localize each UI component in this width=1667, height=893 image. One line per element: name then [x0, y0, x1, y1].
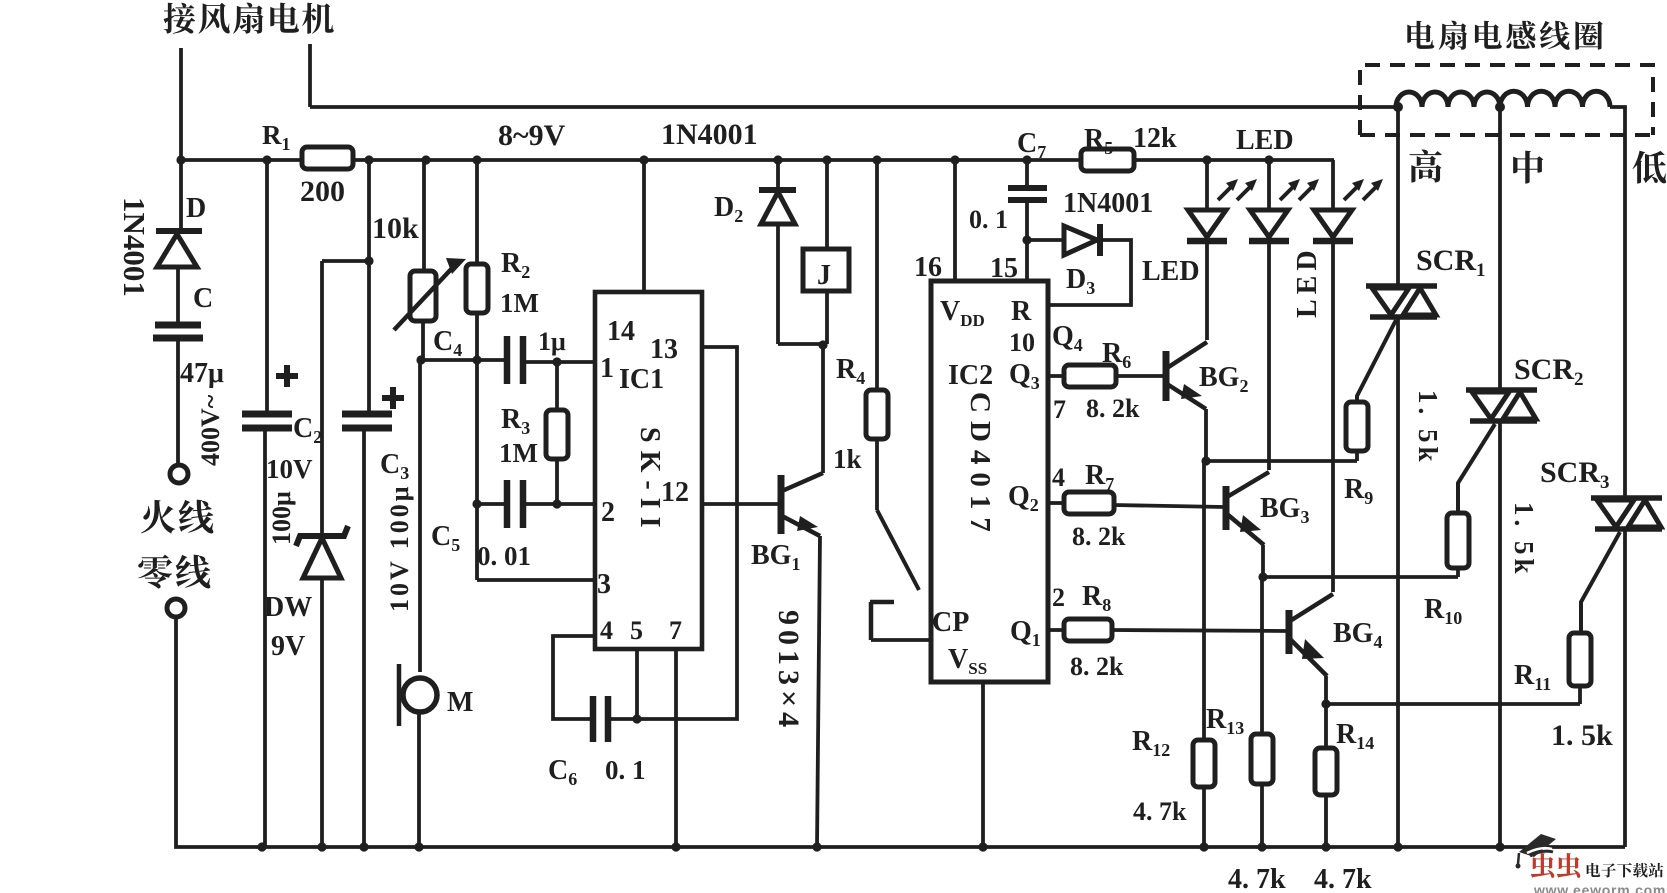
svg-text:1N4001: 1N4001 [661, 118, 758, 151]
svg-text:7: 7 [1053, 395, 1066, 424]
label 100u vertical (C2) [267, 491, 296, 545]
node pin15/C7/D3 [1022, 235, 1031, 244]
wire coil mid tap through SCR2 to ground [1498, 107, 1502, 847]
label LED (top) [1236, 125, 1294, 156]
svg-text:1N4001: 1N4001 [117, 197, 152, 297]
label DW 9V [264, 592, 312, 662]
label LED vertical [1292, 245, 1323, 318]
svg-text:DW: DW [264, 592, 312, 623]
triac SCR1 [1366, 286, 1437, 317]
label R10 [1424, 594, 1462, 628]
transistor BG1 [781, 473, 823, 536]
svg-text:IC2: IC2 [948, 360, 993, 391]
diode D2 [759, 160, 823, 344]
capacitor C6 0.1 [593, 696, 637, 742]
wire ground bus [262, 845, 1625, 849]
svg-text:12: 12 [661, 477, 689, 508]
svg-text:10k: 10k [372, 212, 419, 245]
wire motor lead left [179, 48, 183, 160]
svg-text:1. 5k: 1. 5k [1551, 719, 1613, 752]
label 1N4001 (D3) [1063, 188, 1153, 219]
node BG3 emitter [1258, 572, 1267, 581]
svg-text:LED: LED [1292, 245, 1323, 318]
SCR2 gate wire [1458, 424, 1495, 513]
label C4 1u [433, 326, 566, 360]
label 1N4001 (D2) [661, 118, 758, 151]
relay J [803, 160, 849, 344]
svg-text:0. 1: 0. 1 [969, 205, 1008, 234]
label C2 [266, 413, 322, 484]
wire capacitor C to live terminal [176, 338, 180, 464]
node R2/C4 [472, 355, 481, 364]
wire motor lead to coil top bus [310, 44, 1398, 107]
svg-text:1M: 1M [499, 438, 538, 468]
resistor R7 8.2k [1048, 492, 1224, 514]
label 10k [372, 212, 419, 245]
LED2 [1249, 160, 1319, 470]
svg-text:10V: 10V [266, 454, 313, 484]
resistor R2 1M [466, 160, 595, 580]
label D2 [714, 192, 743, 226]
svg-text:1. 5k: 1. 5k [1509, 502, 1539, 578]
label 400V~ vertical [196, 394, 225, 466]
label R11 1.5k [1514, 660, 1613, 752]
wire bus to C3 and zener tap [322, 160, 374, 412]
svg-text:CP: CP [932, 607, 969, 638]
LED1 [1187, 160, 1257, 340]
wire diode D to capacitor C [176, 268, 180, 322]
label D3 [1066, 264, 1095, 298]
diode D3 1N4001 [1027, 224, 1131, 305]
label C5 0.01 [431, 521, 531, 571]
label 9013x4 vertical [772, 610, 805, 732]
node junctions on ground bus [257, 842, 1504, 851]
wire IC2 Vss to ground [981, 682, 985, 847]
node D2/J/BG1 collector [818, 340, 827, 349]
label BG1 [751, 540, 800, 574]
label 10V 100u vertical (C3) [385, 483, 414, 612]
resistor R14 4.7k [1315, 704, 1337, 847]
resistor R6 8.2k [1048, 365, 1164, 387]
resistor R1 [262, 120, 353, 208]
label R2 1M [500, 248, 539, 318]
svg-text:7: 7 [669, 616, 682, 645]
svg-text:LED: LED [1236, 125, 1294, 156]
node BG4 emitter [1321, 699, 1330, 708]
svg-text:8~9V: 8~9V [498, 119, 566, 152]
label R14 4.7k [1314, 719, 1374, 893]
svg-text:1k: 1k [833, 444, 862, 474]
label 1.5k vertical (R9 path) [1413, 390, 1443, 466]
counter IC2 CD4017 [931, 281, 1048, 682]
label SCR2 [1514, 353, 1584, 390]
label R9 [1344, 474, 1373, 508]
label R4 1k [833, 354, 865, 474]
logo www.eeworm.com [1533, 882, 1666, 893]
label 1.5k vertical (R10 path) [1509, 502, 1539, 578]
wire coil high tap through SCR1 to ground [1396, 107, 1400, 847]
capacitor C2 100u/10V [242, 160, 298, 847]
node coil left tap [1393, 102, 1403, 112]
logo 电子下载站 [1587, 863, 1664, 878]
svg-text:4. 7k: 4. 7k [1133, 797, 1187, 826]
wire BG3 emitter to R10 [1263, 575, 1458, 579]
svg-text:9013×4: 9013×4 [772, 610, 805, 732]
svg-text:www.eeworm.com: www.eeworm.com [1533, 882, 1666, 893]
svg-text:8. 2k: 8. 2k [1070, 652, 1124, 681]
labels 2 R8 8.2k [1052, 581, 1124, 681]
svg-text:9V: 9V [271, 631, 305, 662]
label 15 [990, 253, 1018, 284]
svg-text:SCR1: SCR1 [1416, 244, 1486, 281]
resistor R5 12k [1081, 123, 1177, 171]
label SCR3 [1540, 456, 1610, 493]
svg-text:0. 01: 0. 01 [477, 541, 531, 571]
svg-text:10V 100μ: 10V 100μ [385, 483, 414, 612]
wire contact to IC2 CP [871, 638, 931, 642]
svg-text:4: 4 [1052, 463, 1065, 492]
svg-text:SCR3: SCR3 [1540, 456, 1610, 493]
label 零线 [138, 555, 210, 589]
wire IC1 pin4 to C6 [553, 636, 595, 719]
wire IC1 pin5 [632, 649, 641, 724]
svg-text:16: 16 [914, 252, 942, 283]
svg-text:4. 7k: 4. 7k [1228, 864, 1286, 893]
svg-text:10: 10 [1009, 328, 1035, 357]
node junctions on main bus [176, 155, 1273, 164]
svg-text:5: 5 [630, 616, 643, 645]
wire IC1 pin12 to BG1 base [702, 502, 779, 506]
wire coil low tap through SCR3 to ground [1610, 107, 1625, 847]
svg-text:C: C [193, 283, 213, 314]
svg-text:15: 15 [990, 253, 1018, 284]
svg-text:2: 2 [1052, 583, 1065, 612]
LED3 [1313, 160, 1383, 592]
SCR1 gate wire [1357, 320, 1396, 402]
node R2/C5 [472, 499, 481, 508]
node BG2 emitter [1201, 456, 1210, 465]
transistor BG2 [1166, 342, 1207, 461]
triac SCR3 [1591, 498, 1662, 529]
svg-text:1N4001: 1N4001 [1063, 188, 1153, 219]
wire IC2 pin16 to bus [914, 160, 955, 283]
label R13 4.7k [1206, 704, 1286, 893]
svg-text:CD4017: CD4017 [964, 392, 996, 540]
terminal 火线 (live) [170, 465, 188, 483]
svg-text:12k: 12k [1133, 123, 1177, 154]
node C4/R3 [552, 357, 561, 366]
svg-text:3: 3 [597, 569, 611, 600]
svg-text:200: 200 [300, 175, 345, 208]
dashed enclosure fan coils [1360, 65, 1653, 135]
capacitor C5 0.01 [477, 480, 595, 528]
svg-text:J: J [817, 260, 831, 291]
label R12 4.7k [1132, 726, 1187, 826]
SCR3 gate wire [1581, 532, 1620, 633]
inductor coil mid-low [1500, 91, 1610, 107]
label 中 [1513, 151, 1543, 184]
capacitor C4 1u [421, 336, 595, 384]
svg-text:13: 13 [650, 334, 678, 365]
svg-text:M: M [447, 687, 473, 718]
diode D [156, 160, 206, 267]
svg-text:47μ: 47μ [180, 358, 224, 389]
inductor coil high-mid [1396, 92, 1500, 107]
label BG3 [1260, 493, 1309, 527]
label C3 [380, 449, 409, 483]
logo 虫虫 [1531, 853, 1580, 878]
labels Q4 R6 7 8.2k [1052, 321, 1140, 424]
wire IC1 pin14 to bus [642, 160, 646, 292]
wire BG4 emitter to R11 [1326, 702, 1580, 706]
svg-text:100μ: 100μ [267, 491, 296, 545]
resistor R9 1.5k [1346, 402, 1368, 461]
svg-text:IC1: IC1 [619, 364, 664, 395]
svg-text:14: 14 [607, 316, 635, 347]
svg-text:1. 5k: 1. 5k [1413, 390, 1443, 466]
svg-text:4: 4 [600, 616, 613, 645]
label 1N4001 vertical (diode D) [117, 197, 152, 297]
capacitor C7 0.1 [1008, 160, 1047, 281]
label 低 [1632, 151, 1666, 184]
label C6 0.1 [548, 755, 646, 789]
label SCR1 [1416, 244, 1486, 281]
transistor BG3 [1226, 472, 1269, 577]
transistor BG4 [1289, 594, 1333, 704]
capacitor C3 100u/10V [342, 387, 404, 847]
svg-text:LED: LED [1142, 256, 1200, 287]
svg-text:8. 2k: 8. 2k [1086, 394, 1140, 423]
label 高 [1409, 150, 1441, 183]
switch contact [870, 602, 894, 640]
zener diode DW 9V [296, 261, 348, 847]
resistor R8 8.2k [1048, 619, 1287, 641]
microphone M [399, 664, 473, 847]
label BG4 [1333, 618, 1382, 652]
capacitor C 47u/400V [153, 283, 224, 389]
svg-text:1: 1 [600, 353, 614, 384]
resistor R4 1k [866, 160, 888, 510]
label: fan inductor coils 电扇电感线圈 [1407, 21, 1602, 50]
switch arm to CP [877, 510, 919, 590]
wire BG1 emitter to ground [817, 536, 820, 847]
wire BG1 collector up to relay node [821, 345, 825, 473]
svg-text:8. 2k: 8. 2k [1072, 522, 1126, 551]
label 8~9V [498, 119, 566, 152]
wire neutral terminal to ground bus [176, 617, 262, 847]
labels 4 R7 8.2k [1052, 460, 1126, 551]
node coil mid tap [1495, 102, 1505, 112]
resistor R11 1.5k [1569, 633, 1591, 704]
potentiometer 10k [394, 160, 466, 360]
svg-text:400V~: 400V~ [196, 394, 225, 466]
wire main supply bus [181, 158, 1334, 162]
wire IC1 pin7 to ground [674, 649, 678, 847]
svg-text:SCR2: SCR2 [1514, 353, 1584, 390]
resistor R12 4.7k [1193, 461, 1215, 847]
triac SCR2 [1466, 390, 1537, 421]
svg-text:0. 1: 0. 1 [605, 755, 646, 785]
logo graduation cap [1516, 834, 1557, 869]
label R3 1M [499, 404, 538, 468]
svg-text:R: R [1011, 296, 1032, 327]
svg-text:2: 2 [601, 497, 615, 528]
svg-text:4. 7k: 4. 7k [1314, 864, 1372, 893]
wire BG2 emitter to R9 [1206, 459, 1357, 463]
op-amp IC1 SK-II [595, 292, 702, 649]
label BG2 [1199, 362, 1248, 396]
resistor R13 4.7k [1251, 577, 1273, 847]
wire IC1 pin13 loop [640, 347, 737, 719]
terminal 零线 (neutral) [167, 599, 185, 617]
node C5/R3 [552, 499, 561, 508]
label LED (horizontal, left) [1142, 256, 1200, 287]
label 火线 [141, 500, 213, 534]
svg-text:D: D [186, 193, 206, 224]
svg-text:1μ: 1μ [538, 327, 566, 356]
wire pot to microphone [416, 355, 425, 672]
svg-text:1M: 1M [500, 288, 539, 318]
label C7 0.1 [969, 128, 1046, 234]
label: fan motor connection 接风扇电机 [164, 3, 334, 34]
resistor R3 1M [546, 362, 568, 504]
resistor R10 1.5k [1447, 513, 1469, 577]
